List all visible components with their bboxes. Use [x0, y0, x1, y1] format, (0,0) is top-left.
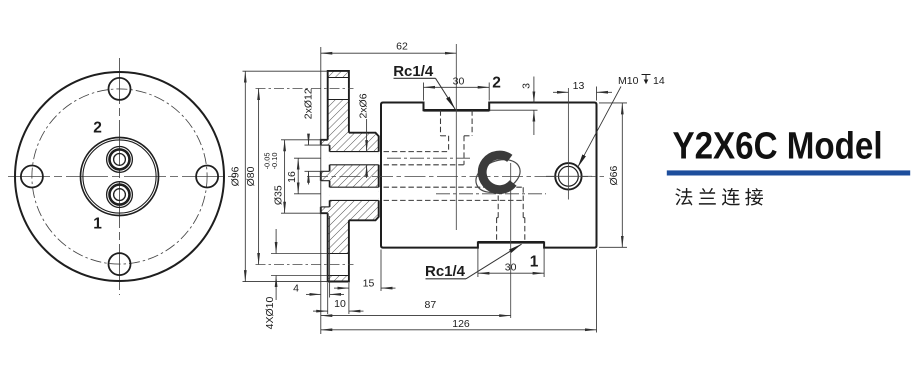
- dim 16: [297, 158, 299, 194]
- svg-text:87: 87: [425, 299, 437, 311]
- port1 milled flat (thick): [478, 241, 544, 244]
- svg-text:1: 1: [93, 216, 102, 233]
- flange outer circle: [15, 72, 224, 281]
- orbit ellipse: [471, 153, 525, 198]
- port1 counterbore edges: [321, 180, 330, 182]
- body outline: [381, 103, 597, 248]
- dim 15 arrows: [334, 287, 349, 289]
- bolt circle (dash-dot): [32, 89, 207, 264]
- hatched boss Ø35: [321, 140, 328, 213]
- dim 4xØ10 ext: [271, 253, 328, 255]
- white band port2 counterbore: [321, 145, 330, 171]
- dim 30 top: [424, 86, 490, 88]
- centerline horizontal: [8, 176, 237, 178]
- dim Ø96 ext: [243, 70, 328, 72]
- bolt hole top: [109, 78, 131, 100]
- port2 passage edges: [330, 151, 379, 153]
- svg-text:15: 15: [363, 277, 375, 289]
- dim 2xØ12 arrows: [308, 134, 310, 145]
- white band bolt hole top: [327, 78, 349, 100]
- M10 leader: [578, 87, 621, 168]
- dim Ø35 ext: [281, 139, 321, 141]
- svg-text:14: 14: [653, 75, 665, 87]
- bolt band edges: [328, 77, 349, 79]
- dim 13 arrows: [553, 91, 568, 93]
- dim 2xØ6 arrows: [366, 119, 368, 152]
- hub outline: [349, 133, 379, 221]
- hatched hub Ø40: [349, 133, 379, 221]
- M10 tapped hole: [555, 163, 581, 189]
- Rc1/4 top underline and leader: [394, 77, 436, 79]
- svg-text:30: 30: [505, 261, 517, 273]
- Rc1/4 bottom underline and leader: [426, 278, 467, 280]
- main centerline: [307, 176, 604, 178]
- dim 3 ext: [489, 109, 537, 111]
- svg-text:13: 13: [573, 80, 585, 92]
- hanzi 法兰连接: [675, 188, 763, 206]
- port1 passage axis (dash-dot): [436, 193, 546, 195]
- bolt hole right: [196, 166, 218, 188]
- port1 passage edges: [330, 186, 379, 188]
- svg-text:Ø80: Ø80: [245, 166, 257, 186]
- svg-text:-0.10: -0.10: [270, 153, 279, 170]
- port2 milled flat (thick): [424, 109, 490, 112]
- port 1 circles: [107, 182, 133, 208]
- hidden port2 hole: [440, 110, 442, 136]
- svg-text:Y2X6C Model: Y2X6C Model: [673, 124, 883, 167]
- flange outline: [328, 71, 349, 282]
- M10 centerlines: [567, 88, 569, 200]
- white band port1 counterbore: [321, 181, 330, 207]
- dim 15 ext: [380, 250, 382, 292]
- svg-text:10: 10: [334, 298, 346, 310]
- dim 4 arrows: [306, 293, 321, 295]
- svg-text:Ø96: Ø96: [230, 166, 242, 186]
- hanzi 接: [745, 188, 763, 206]
- svg-text:2: 2: [492, 75, 501, 92]
- hanzi 兰: [699, 188, 716, 205]
- bold C: [482, 155, 513, 190]
- dim 30 bottom: [478, 272, 544, 274]
- dim 30 top ext: [423, 83, 425, 101]
- hatched flange plate: [328, 71, 349, 282]
- dim Ø96: [244, 71, 246, 281]
- dim Ø66: [621, 103, 623, 247]
- centerline vertical: [119, 58, 121, 295]
- port2 counterbore edges: [321, 144, 330, 146]
- svg-text:Ø66: Ø66: [608, 166, 620, 186]
- dim Ø80: [258, 89, 260, 265]
- dim 4 ext: [329, 216, 331, 298]
- svg-text:16: 16: [286, 171, 298, 183]
- dim 126 ext: [596, 250, 598, 333]
- svg-text:2xØ12: 2xØ12: [302, 88, 314, 119]
- white band bolt hole bottom: [327, 254, 349, 276]
- port2 axis vertical: [455, 44, 457, 230]
- svg-text:30: 30: [453, 75, 465, 87]
- svg-text:Ø35: Ø35: [273, 185, 285, 205]
- bolt circle dash-dot lines (also Ø80 extensions): [256, 88, 354, 90]
- boss inner circle: [83, 140, 156, 213]
- dim 30 bottom ext: [477, 249, 479, 278]
- svg-text:3: 3: [521, 83, 533, 89]
- svg-text:Rc1/4: Rc1/4: [393, 63, 434, 80]
- port 2 circles: [107, 147, 133, 173]
- dim 87: [321, 315, 511, 317]
- bolt hole bottom: [109, 253, 131, 275]
- white band port2 passage: [330, 152, 379, 165]
- dim 126: [321, 329, 597, 331]
- dim 3 arrows: [533, 77, 535, 103]
- boss outline: [321, 140, 328, 213]
- svg-text:4: 4: [293, 283, 299, 295]
- hanzi 法: [675, 188, 692, 206]
- dim 13 ext: [596, 87, 598, 101]
- counterbore step faces: [329, 145, 331, 207]
- port2 passage axis (dash-dot): [387, 157, 471, 159]
- dim Ø66 ext: [599, 102, 627, 104]
- dim 4xØ10 arrows: [275, 229, 277, 254]
- boss outer circle: [81, 138, 159, 216]
- dim 10 arrows: [313, 310, 328, 312]
- hidden port1 hole: [497, 187, 499, 217]
- svg-text:126: 126: [452, 318, 470, 330]
- bolt hole left: [21, 166, 43, 188]
- svg-text:2xØ6: 2xØ6: [358, 93, 370, 118]
- hanzi 连: [722, 188, 740, 206]
- svg-text:Rc1/4: Rc1/4: [425, 263, 466, 280]
- dim 16 ext: [294, 157, 321, 159]
- svg-text:2: 2: [93, 120, 102, 137]
- blue rule: [667, 170, 910, 175]
- white band port1 passage: [330, 187, 379, 200]
- svg-text:M10: M10: [618, 75, 639, 87]
- port1 axis vertical: [510, 163, 512, 318]
- svg-text:4XØ10: 4XØ10: [264, 297, 276, 330]
- dim Ø35: [284, 140, 286, 213]
- hidden bore lines: [384, 110, 525, 241]
- dim 2xØ12 ext: [305, 144, 322, 146]
- dim 10 ext: [327, 283, 329, 314]
- svg-text:1: 1: [530, 253, 539, 270]
- dim 62: [321, 52, 457, 54]
- svg-text:62: 62: [396, 41, 408, 53]
- depth symbol: [642, 75, 651, 85]
- left reference line: [320, 47, 322, 334]
